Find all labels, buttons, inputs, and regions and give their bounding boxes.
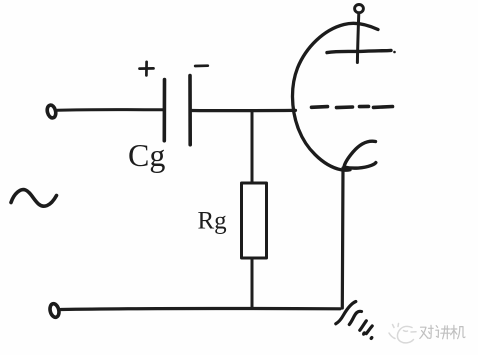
watermark text 机 [451,325,465,338]
annotation scribble stroke 4 [366,326,372,334]
watermark text 讲 [436,326,450,339]
annotation scribble stroke 1 [336,302,356,324]
annotation scribble dot 2 [369,335,374,341]
wire: capacitor to tube grid [192,109,296,112]
polarity label + [140,62,154,76]
wire: resistor to bottom rail [251,258,254,307]
bottom terminal (lower left) [49,303,61,318]
capacitor Cg right plate [188,76,192,145]
wire: bottom rail [61,308,340,309]
resistor Rg [242,183,267,258]
polarity label - [195,64,208,67]
plate (anode) lead [357,13,358,63]
capacitor Cg left plate [163,80,167,141]
plate bar end dot [393,51,396,54]
plate (anode) bar [327,50,391,52]
wire: junction down to resistor Rg [251,111,254,183]
top cap terminal [355,5,364,13]
AC source tilde [11,190,57,207]
watermark logo [389,324,416,343]
annotation scribble stroke 2 [349,311,361,324]
watermark text 对 [420,325,433,338]
wire: input terminal to capacitor [58,108,164,112]
svg-text:Cg: Cg [128,137,165,173]
tube V1 envelope [292,23,378,170]
annotation scribble stroke 3 [360,321,367,331]
cathode [344,141,376,168]
svg-text:Rg: Rg [198,208,228,235]
wire: cathode lead down to bottom rail [341,168,345,308]
annotation scribble dot 1 [361,331,367,337]
grid (dashed) [312,106,393,107]
input terminal (top left) [46,104,57,119]
